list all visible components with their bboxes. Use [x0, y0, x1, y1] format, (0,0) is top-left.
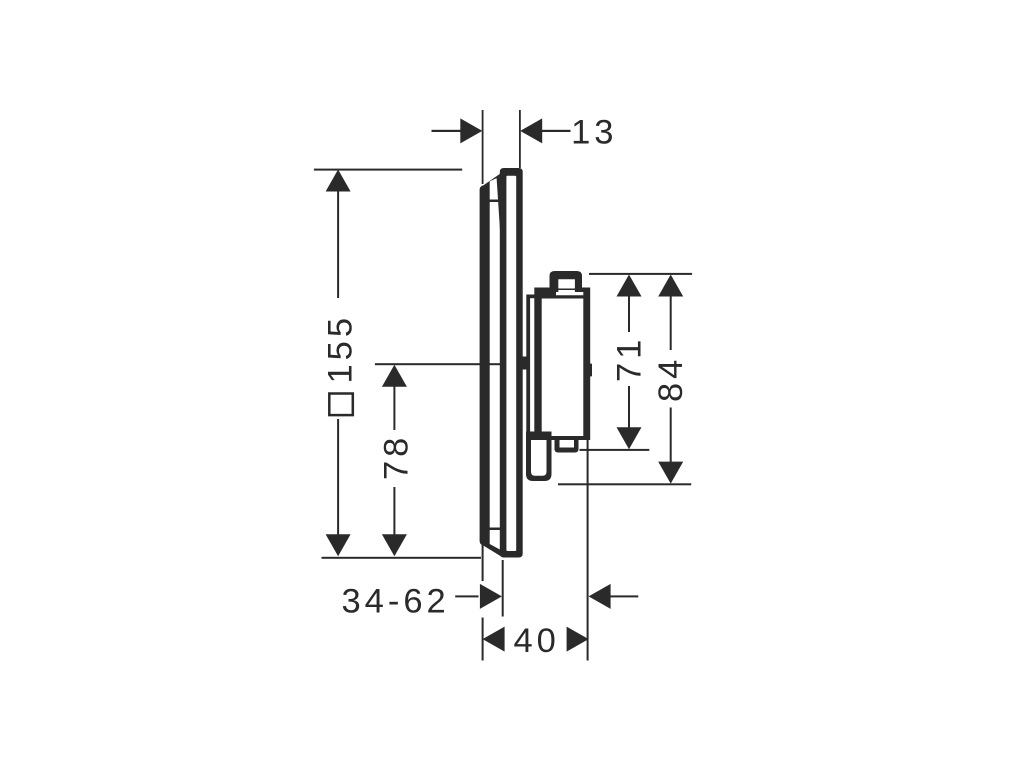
dimension 13: right arrowhead: [520, 118, 542, 143]
dimension 155: square symbol: [329, 394, 353, 416]
dimension 84: line upper segment: [670, 296, 672, 350]
dimension 84: bottom arrowhead: [658, 462, 683, 484]
dimension 155: bottom arrowhead: [326, 534, 351, 556]
dimension 71: top arrowhead: [617, 275, 642, 297]
dimension 13: right extension line: [519, 110, 521, 168]
dimension 13: left extension line: [482, 110, 484, 184]
dimension 71: line upper segment: [628, 296, 630, 332]
dimension 40: left arrowhead: [483, 627, 505, 652]
dimension 78: line lower segment: [393, 487, 395, 536]
stem nub between rosette and handle: [519, 357, 529, 370]
dimension 13: right leader line: [542, 130, 571, 132]
dimension 40: right extension line: [587, 440, 589, 661]
dimension 78: line upper segment: [393, 386, 395, 430]
right edge clip bump: [590, 364, 593, 377]
flange bottom seam: [490, 528, 501, 531]
handle body bottom edge: [535, 436, 591, 440]
dimension 34-62: right arrowhead: [589, 584, 611, 609]
dimension 13: left leader line: [432, 130, 461, 132]
dimension 71: bottom extension line: [580, 449, 650, 451]
dimension 34-62: left arrowhead: [480, 584, 502, 609]
dimension 84: top arrowhead: [658, 275, 683, 297]
dimension 78: top arrowhead: [382, 365, 407, 387]
handle body right edge: [583, 288, 590, 441]
dimension 84: bottom extension line: [558, 483, 691, 485]
dimension 155: bottom baseline: [322, 557, 482, 559]
svg-text:34-62: 34-62: [342, 582, 450, 620]
dimension 13: left arrowhead: [460, 118, 482, 143]
dimension 155: line upper segment: [337, 191, 339, 299]
lower housing: [526, 432, 552, 482]
dimension 71/84: top extension line: [589, 273, 692, 275]
svg-text:40: 40: [514, 622, 560, 660]
dimension 78: top extension line: [375, 363, 501, 365]
dimension 155: top arrowhead: [326, 170, 351, 192]
flange top seam: [490, 200, 501, 203]
handle sleeve front line: [526, 295, 530, 432]
dimension 71: bottom arrowhead: [617, 427, 642, 449]
dimension 155: top extension line: [314, 169, 462, 171]
flange back plate (wall carrier, side profile): [480, 174, 501, 557]
svg-text:71: 71: [611, 336, 649, 382]
handle body left edge: [534, 288, 541, 441]
dimension 155: line lower segment: [337, 419, 339, 536]
dimension 34-62: extension line at rosette bottom: [502, 560, 504, 617]
dimension 84: line lower segment: [670, 408, 672, 463]
dimension 34-62: leader line: [455, 595, 478, 597]
svg-text:78: 78: [378, 434, 416, 480]
svg-text:13: 13: [571, 113, 617, 151]
dimension 71: line lower segment: [628, 386, 630, 428]
rosette front plate (side profile): [500, 168, 523, 558]
sleeve top edge: [527, 295, 537, 299]
handle top knob: [550, 271, 583, 290]
dimension 34-62: right leader line: [610, 595, 638, 597]
dimension 40: left extension line upper segment: [482, 545, 484, 581]
dimension 40: right arrowhead: [567, 627, 589, 652]
svg-text:155: 155: [322, 314, 360, 384]
dimension 40: left extension line lower segment: [482, 618, 484, 661]
svg-text:84: 84: [652, 356, 690, 402]
bottom button: [555, 440, 579, 453]
dimension 78: bottom arrowhead: [382, 534, 407, 556]
handle cap band: [535, 288, 591, 299]
